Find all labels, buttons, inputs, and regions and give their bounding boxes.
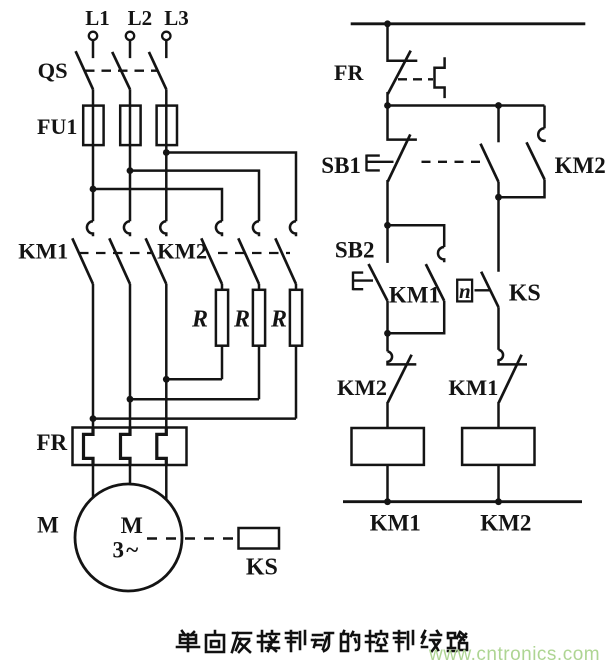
svg-text:R: R: [233, 307, 250, 333]
svg-text:KS: KS: [246, 555, 278, 581]
svg-text:3~: 3~: [113, 537, 141, 562]
svg-text:KM1: KM1: [18, 239, 68, 264]
svg-text:KM1: KM1: [448, 375, 498, 400]
svg-text:KM2: KM2: [555, 153, 606, 178]
svg-text:R: R: [191, 307, 208, 333]
svg-text:FR: FR: [334, 60, 364, 85]
svg-text:R: R: [270, 307, 287, 333]
svg-text:L2: L2: [128, 6, 153, 30]
svg-text:M: M: [121, 513, 143, 539]
svg-text:SB1: SB1: [321, 153, 361, 178]
svg-text:QS: QS: [38, 58, 68, 83]
svg-text:SB2: SB2: [335, 238, 375, 263]
svg-text:KM2: KM2: [157, 239, 207, 264]
svg-text:KM2: KM2: [337, 375, 387, 400]
svg-text:KS: KS: [509, 281, 541, 307]
svg-text:KM2: KM2: [480, 511, 531, 536]
svg-text:FU1: FU1: [37, 114, 77, 139]
svg-text:FR: FR: [37, 430, 68, 455]
svg-text:KM1: KM1: [389, 283, 440, 308]
svg-text:M: M: [37, 513, 59, 538]
svg-text:L1: L1: [85, 6, 110, 30]
svg-text:L3: L3: [164, 6, 189, 30]
svg-text:www.cntronics.com: www.cntronics.com: [428, 644, 600, 665]
svg-text:KM1: KM1: [370, 511, 421, 536]
svg-text:n: n: [459, 279, 471, 303]
